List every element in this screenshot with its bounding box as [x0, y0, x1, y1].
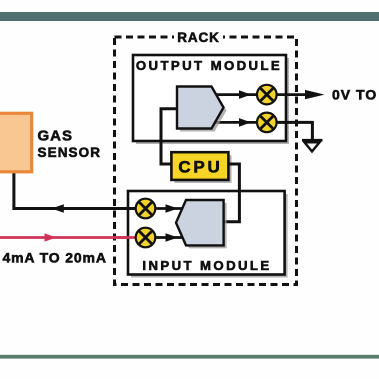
ADC converter (input module pentagon)	[176, 200, 227, 248]
output module box	[133, 55, 289, 144]
svg-text:SENSOR: SENSOR	[38, 145, 102, 160]
input lamp 1 (indicator)	[136, 199, 156, 219]
wire: output lamp2 to ground	[276, 122, 312, 139]
arrowhead into ADC top	[166, 204, 179, 213]
svg-text:0V TO 10V: 0V TO 10V	[332, 87, 379, 103]
arrowhead (left) on sensor wire	[52, 204, 64, 213]
bottom banner bar	[0, 355, 379, 359]
output lamp 1 (indicator)	[257, 85, 277, 105]
CPU box	[171, 152, 231, 183]
svg-text:GAS: GAS	[38, 128, 74, 145]
input module box	[128, 191, 288, 278]
gas sensor box	[0, 113, 32, 172]
wire: DAC to CPU	[161, 109, 178, 164]
arrowhead (right) on red wire	[45, 233, 57, 241]
ground symbol	[302, 140, 323, 151]
svg-text:CPU: CPU	[178, 158, 222, 177]
wire: 4-20mA red line	[0, 236, 146, 239]
wire: rack border to input lamp 1 (re-draw over box)	[114, 207, 146, 210]
input lamp 2 (indicator)	[136, 228, 156, 248]
rack dashed enclosure	[115, 30, 297, 285]
svg-text:RACK: RACK	[177, 30, 220, 45]
wire: red into input lamp 2 (over box edge)	[114, 236, 146, 239]
wire: input lamp1 to ADC	[155, 207, 182, 210]
wire: DAC to output lamp 2	[210, 121, 258, 124]
top banner bar	[0, 12, 379, 21]
arrowhead into ADC bottom	[166, 233, 179, 242]
wire: DAC to output lamp 1	[210, 93, 258, 96]
svg-text:INPUT MODULE: INPUT MODULE	[142, 258, 271, 273]
output lamp 2 (indicator)	[257, 113, 277, 133]
arrowhead 0V output	[305, 90, 325, 99]
wire: input lamp2 to ADC	[155, 236, 182, 239]
wire: output lamp1 to 0V terminal	[276, 93, 309, 96]
svg-text:OUTPUT MODULE: OUTPUT MODULE	[136, 58, 282, 73]
wire: CPU to ADC	[224, 164, 239, 222]
svg-text:4mA TO 20mA: 4mA TO 20mA	[3, 250, 107, 266]
DAC converter (output module pentagon)	[177, 87, 227, 132]
arrowhead into lamp 2	[239, 118, 251, 127]
wire: sensor drop and horizontal run to input module lamp	[14, 170, 146, 209]
arrowhead into lamp 1	[239, 90, 251, 99]
